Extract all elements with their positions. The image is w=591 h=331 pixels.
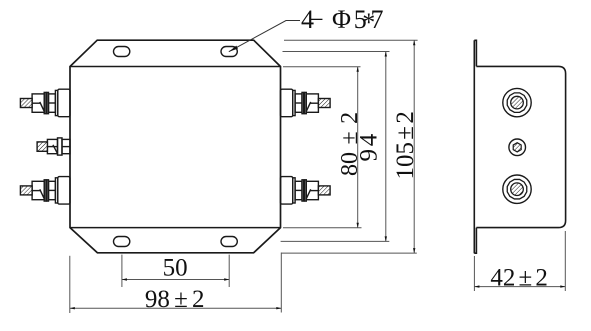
dimension 80±2 arrows: [357, 67, 359, 228]
slot hole bottom-right: [221, 237, 237, 247]
side view terminal circle middle (small): [509, 139, 526, 156]
leader line for 4-Φ5*7: [229, 21, 300, 52]
dimension 105±2 line: [413, 40, 415, 253]
svg-text:4−Φ5*7: 4−Φ5*7: [301, 5, 383, 37]
dimension 105±2 arrows: [413, 40, 415, 253]
svg-text:105±2: 105±2: [392, 111, 419, 179]
flange/body junction line top: [70, 66, 281, 68]
dimension 94 extension lines: [281, 52, 390, 242]
side view terminal circle top (big): [503, 88, 531, 116]
dimension 42±2 arrows: [474, 285, 565, 287]
dimension 105±2 extension lines: [281, 40, 417, 253]
dimension 50 extension lines: [122, 255, 229, 287]
flange/body junction line bottom: [70, 227, 281, 229]
dimension 50 line: [122, 279, 229, 281]
side view terminal circle bottom (big): [503, 175, 531, 203]
terminal left-middle (small terminal): [37, 138, 70, 155]
slot hole bottom-left: [114, 237, 130, 247]
svg-text:94: 94: [356, 133, 383, 161]
svg-text:98±2: 98±2: [145, 286, 205, 313]
terminal right-bottom (load terminal, mirrored): [281, 177, 331, 205]
terminal right-top (load terminal, mirrored): [281, 89, 331, 117]
dimension 98±2 line: [70, 307, 281, 309]
dimension 98±2 extension lines: [70, 253, 281, 314]
slot hole top-left: [114, 47, 130, 57]
side view outline: [474, 40, 565, 253]
terminal left-top (line terminal with base block): [20, 89, 70, 117]
terminal left-bottom (line terminal with base block): [20, 177, 70, 205]
svg-text:50: 50: [163, 255, 188, 282]
dimension 80±2 extension lines: [283, 67, 362, 228]
dimension 98±2 arrows: [70, 307, 281, 309]
dimension 50 arrows: [122, 278, 229, 280]
dimension 94 line: [385, 52, 387, 242]
dimension 42±2 extension lines: [474, 231, 565, 291]
svg-text:42±2: 42±2: [490, 265, 547, 292]
slot hole top-right: [221, 47, 237, 57]
dimension 94 arrows: [385, 52, 387, 242]
dimension 42±2 line: [474, 286, 565, 288]
dimension 80±2 line: [357, 67, 359, 228]
front view outline (body with chamfered mounting flanges): [70, 40, 281, 253]
leader arrow: [229, 46, 238, 52]
